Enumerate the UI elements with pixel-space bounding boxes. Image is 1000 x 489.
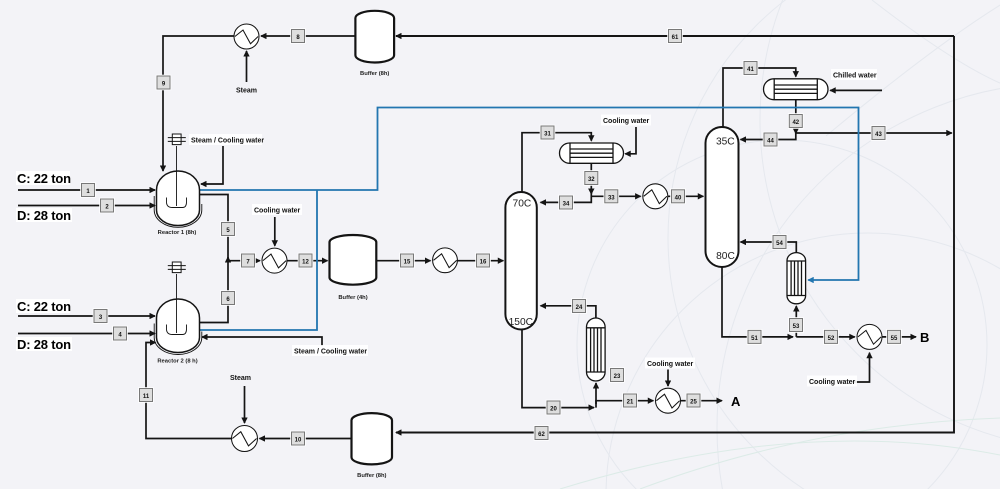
svg-text:B: B bbox=[920, 330, 929, 345]
svg-text:Steam / Cooling water: Steam / Cooling water bbox=[191, 138, 264, 145]
cooler E9 bbox=[857, 324, 882, 349]
wire: junction up into condenser S2 bbox=[795, 306, 797, 337]
column C2 (35C/80C) bbox=[706, 127, 739, 267]
svg-text:C: 22 ton: C: 22 ton bbox=[17, 171, 71, 186]
svg-text:Cooling water: Cooling water bbox=[647, 361, 694, 368]
cooler E6 bbox=[656, 388, 681, 413]
svg-text:31: 31 bbox=[544, 132, 551, 138]
wire: stripper S1 top to column C1 bbox=[541, 306, 596, 318]
node 3 bbox=[93, 308, 109, 324]
wire: steam/cooling water into R1 bbox=[201, 146, 223, 184]
node 34 bbox=[558, 195, 574, 211]
heater E7 (steam, bottom) bbox=[232, 426, 258, 452]
svg-text:Steam: Steam bbox=[236, 88, 257, 95]
wire: condenser S2 top to column C2 bbox=[741, 242, 797, 253]
node 20 bbox=[546, 400, 562, 416]
condenser S2 bbox=[787, 253, 806, 304]
svg-text:Buffer (8h): Buffer (8h) bbox=[357, 473, 386, 479]
label cooling water (E2) bbox=[252, 204, 302, 215]
stirrer motor M1 bbox=[168, 134, 186, 145]
cooler E2 bbox=[262, 248, 287, 273]
stripper S1 bbox=[587, 318, 606, 381]
wire: heater E5 to column C2 bbox=[668, 195, 703, 197]
label cooling water (E4) bbox=[601, 115, 651, 126]
svg-text:34: 34 bbox=[563, 202, 570, 208]
wire: junction to heater E5 bbox=[591, 195, 640, 197]
svg-text:16: 16 bbox=[480, 260, 487, 266]
wire: feed line 1 into R1 bbox=[18, 189, 155, 191]
label steam/cooling water R2 bbox=[292, 345, 368, 356]
condenser E4 (shell and tube) bbox=[560, 143, 624, 163]
svg-text:42: 42 bbox=[792, 120, 799, 126]
heater E5 bbox=[643, 184, 668, 209]
wire: cooling water into E6 bbox=[667, 370, 669, 387]
svg-text:52: 52 bbox=[828, 336, 835, 342]
label feed C ton (R2) bbox=[16, 299, 71, 314]
node 9 bbox=[156, 75, 172, 91]
node 43 bbox=[871, 125, 887, 141]
wire: bottom buffer B3 to heater E7 bbox=[260, 438, 353, 440]
wire: blue branch to R2 bbox=[200, 190, 317, 330]
svg-text:Reactor 2 (8 h): Reactor 2 (8 h) bbox=[157, 359, 197, 365]
label chilled water bbox=[831, 69, 877, 80]
svg-text:D: 28 ton: D: 28 ton bbox=[17, 208, 71, 223]
svg-text:35C: 35C bbox=[716, 136, 735, 147]
reactor R1 bbox=[157, 171, 200, 225]
wire: right vertical + bottom line into buffer B3 bbox=[396, 36, 954, 433]
node 1 bbox=[80, 182, 96, 198]
heater E1 (steam, top) bbox=[234, 24, 259, 49]
wire: steam/cooling water into R2 bbox=[202, 337, 322, 346]
wire: cooling water into E9 bbox=[852, 353, 870, 382]
wire: steam arrow into E1 bbox=[246, 51, 248, 82]
wire: R1 outlet down through tag 5 bbox=[199, 195, 229, 261]
chilled condenser E8 bbox=[764, 79, 829, 100]
wire: column C2 top to chilled condenser E8 bbox=[723, 68, 796, 128]
wire: cooler E9 to product B bbox=[882, 336, 916, 338]
wire: buffer B1 to heater E1 bbox=[261, 35, 355, 37]
node 16 bbox=[475, 253, 491, 269]
column C1 (70C/150C) bbox=[505, 192, 536, 330]
wire: tag 32 line continues to tag 34 level bbox=[541, 193, 592, 202]
svg-text:A: A bbox=[731, 394, 741, 409]
svg-text:55: 55 bbox=[891, 336, 898, 342]
wire: blue recycle from R1 to condenser S2 bbox=[200, 108, 859, 281]
svg-text:70C: 70C bbox=[513, 198, 532, 209]
node 42 bbox=[788, 113, 804, 129]
svg-text:33: 33 bbox=[608, 195, 615, 201]
svg-text:61: 61 bbox=[672, 35, 679, 41]
svg-text:150C: 150C bbox=[509, 317, 533, 328]
svg-text:Cooling water: Cooling water bbox=[603, 118, 650, 125]
node 62 bbox=[534, 425, 550, 441]
svg-text:43: 43 bbox=[875, 132, 882, 138]
svg-text:32: 32 bbox=[588, 177, 595, 183]
svg-text:24: 24 bbox=[576, 305, 583, 311]
wire: buffer B2 to heater E3 bbox=[376, 260, 431, 262]
wire: heater E7 up into R2 bbox=[146, 343, 232, 439]
wire: heater E3 to column C1 bbox=[457, 260, 503, 262]
node 44 bbox=[763, 132, 779, 148]
wire: feed line 2 into R1 bbox=[18, 205, 155, 207]
svg-text:40: 40 bbox=[675, 195, 682, 201]
wire: junction up into stripper S1 bbox=[595, 383, 597, 404]
buffer B3 (bottom) bbox=[352, 413, 393, 464]
node 54 bbox=[772, 234, 788, 250]
node 11 bbox=[138, 387, 154, 403]
svg-text:D: 28 ton: D: 28 ton bbox=[17, 337, 71, 352]
label cooling water (E6) bbox=[645, 358, 695, 369]
wire: recycle top line into buffer B1 bbox=[396, 35, 954, 37]
svg-text:21: 21 bbox=[627, 400, 634, 406]
svg-text:53: 53 bbox=[793, 324, 800, 330]
node 53 bbox=[788, 317, 804, 333]
label feed D ton (R2) bbox=[16, 337, 72, 352]
node 4 bbox=[112, 326, 128, 342]
wire: steam arrow into E7 bbox=[244, 386, 246, 423]
svg-text:23: 23 bbox=[614, 374, 621, 380]
svg-text:Steam: Steam bbox=[230, 375, 251, 382]
wire: column C1 bottom through tag 20 bbox=[522, 330, 594, 408]
wire: cooling water into E2 bbox=[274, 217, 276, 246]
wire: feed line 3 into R2 bbox=[18, 315, 155, 317]
wire: junction right through tag 43 to recycle bbox=[796, 132, 952, 134]
wire: cooling water into E4 bbox=[625, 127, 636, 154]
svg-text:11: 11 bbox=[143, 394, 150, 400]
node 61 bbox=[667, 28, 683, 44]
wire: junction to cooler E9 bbox=[796, 336, 855, 338]
wire: cooler E2 to buffer B2 bbox=[287, 260, 328, 262]
node 8 bbox=[290, 28, 306, 44]
wire: E4 bottom down through tag 32 bbox=[590, 163, 592, 194]
wire: column C1 top to condenser E4 bbox=[522, 133, 591, 192]
wire: feed line 4 into R2 bbox=[18, 333, 155, 335]
stirrer motor M2 bbox=[168, 262, 186, 273]
wire: column C2 bottom through tag 51 bbox=[722, 267, 793, 337]
svg-text:15: 15 bbox=[404, 260, 411, 266]
node 25 bbox=[686, 393, 702, 409]
svg-text:Steam / Cooling water: Steam / Cooling water bbox=[294, 349, 367, 356]
node 5 bbox=[220, 221, 236, 237]
svg-text:62: 62 bbox=[538, 432, 545, 438]
node 24 bbox=[571, 298, 587, 314]
node 40 bbox=[670, 189, 686, 205]
node 31 bbox=[540, 125, 556, 141]
node 10 bbox=[290, 431, 306, 447]
node 23 bbox=[609, 367, 625, 383]
svg-text:25: 25 bbox=[690, 400, 697, 406]
wire: chilled water into E8 bbox=[830, 89, 882, 91]
svg-text:Cooling water: Cooling water bbox=[254, 208, 301, 215]
svg-text:Buffer (4h): Buffer (4h) bbox=[338, 295, 367, 301]
svg-text:12: 12 bbox=[302, 260, 309, 266]
wire: junction to cooler E6 bbox=[596, 401, 653, 408]
node 32 bbox=[584, 170, 600, 186]
svg-text:10: 10 bbox=[295, 438, 302, 444]
node 12 bbox=[298, 253, 314, 269]
node 55 bbox=[886, 329, 902, 345]
label feed C ton (R1) bbox=[16, 171, 71, 186]
node 51 bbox=[747, 329, 763, 345]
label cooling water (E9) bbox=[807, 376, 857, 387]
node 2 bbox=[99, 198, 115, 214]
background decorative arcs bbox=[577, 0, 1000, 489]
wire: tag 42 line to tag 44 level bbox=[741, 130, 796, 140]
label steam/cooling water R1 bbox=[189, 134, 264, 145]
background teal arcs bbox=[560, 418, 1000, 489]
heater E3 bbox=[433, 248, 458, 273]
node 7 bbox=[240, 253, 256, 269]
node 33 bbox=[604, 189, 620, 205]
wire: heater E1 to reactor R1 top bbox=[163, 36, 234, 171]
reactor R2 bbox=[157, 299, 200, 353]
node 21 bbox=[622, 393, 638, 409]
svg-text:51: 51 bbox=[751, 336, 758, 342]
svg-text:C: 22 ton: C: 22 ton bbox=[17, 299, 71, 314]
label feed D ton (R1) bbox=[16, 208, 72, 223]
node 52 bbox=[823, 329, 839, 345]
svg-text:44: 44 bbox=[767, 139, 774, 145]
svg-text:Chilled water: Chilled water bbox=[833, 73, 877, 80]
buffer B1 (top) bbox=[355, 11, 394, 63]
buffer B2 (4h) bbox=[330, 235, 377, 285]
svg-text:80C: 80C bbox=[716, 251, 735, 262]
svg-text:Buffer (8h): Buffer (8h) bbox=[360, 71, 389, 77]
wire: cooler E6 to product A bbox=[681, 400, 722, 402]
wire: E8 bottom through tag 42 bbox=[795, 100, 797, 134]
wire: junction to cooler E2 bbox=[228, 260, 260, 262]
svg-text:Reactor 1 (8h): Reactor 1 (8h) bbox=[158, 230, 197, 236]
node 6 bbox=[220, 290, 236, 306]
svg-text:20: 20 bbox=[550, 407, 557, 413]
svg-text:54: 54 bbox=[776, 241, 783, 247]
svg-text:41: 41 bbox=[747, 67, 754, 73]
svg-text:Cooling water: Cooling water bbox=[809, 379, 856, 386]
wire: R2 outlet up through tag 6 bbox=[199, 257, 229, 323]
node 15 bbox=[399, 253, 415, 269]
node 41 bbox=[743, 60, 759, 76]
